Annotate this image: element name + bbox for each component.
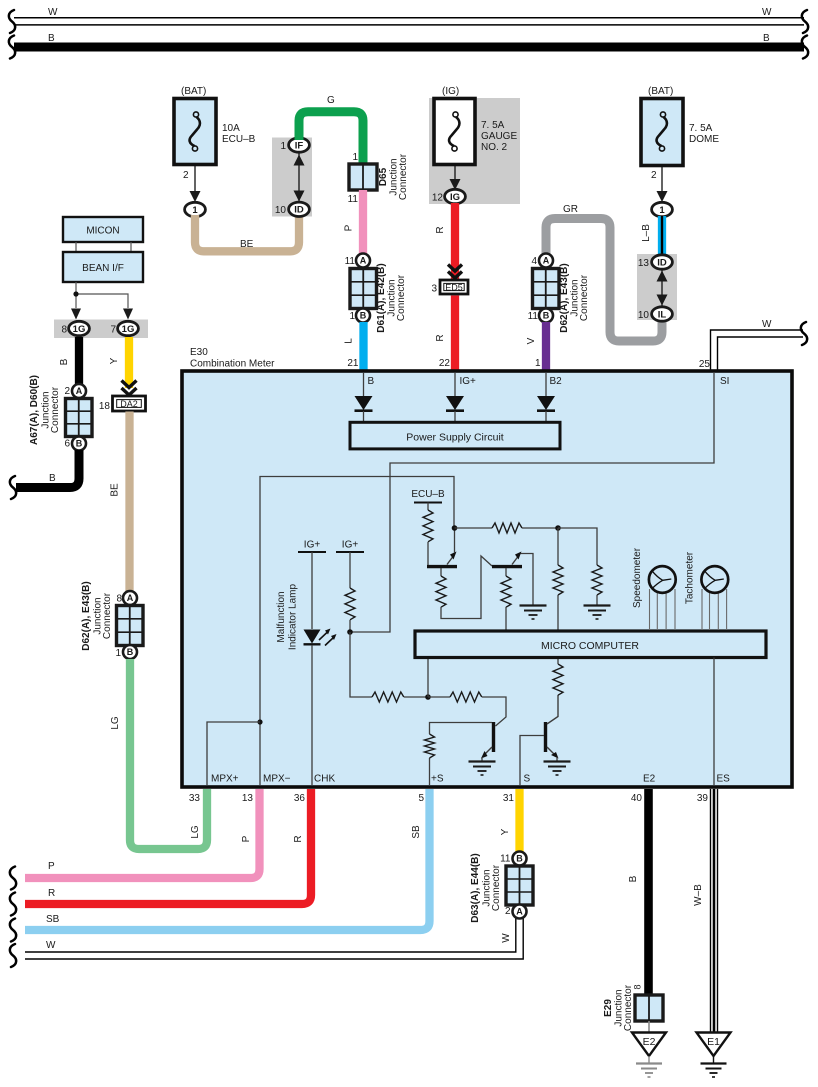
junction connector D62(A), E43(B) right xyxy=(533,269,560,309)
wire R6 to ground xyxy=(596,595,598,605)
arrow up below ID xyxy=(657,271,668,282)
svg-text:2: 2 xyxy=(64,386,70,397)
svg-text:E30: E30 xyxy=(190,347,208,358)
svg-text:7: 7 xyxy=(110,325,116,336)
svg-text:2: 2 xyxy=(651,170,657,181)
svg-text:MPX+: MPX+ xyxy=(211,774,239,785)
wire BE (ECU-B to ID) xyxy=(195,215,299,251)
transistor Q4 base bar xyxy=(544,722,547,752)
wire node D to micro computer xyxy=(427,658,429,698)
junction connector D62(A), E43(B) left xyxy=(117,606,144,646)
transistor Q4 collector xyxy=(547,695,558,724)
svg-text:(IG): (IG) xyxy=(442,86,459,97)
svg-text:IG+: IG+ xyxy=(342,540,359,551)
terminal circle B of D62 xyxy=(539,309,553,323)
box MICON xyxy=(63,217,143,242)
svg-text:5: 5 xyxy=(418,793,424,804)
wire R7 to node C xyxy=(349,620,351,632)
svg-text:D62(A), E43(B): D62(A), E43(B) xyxy=(81,581,92,650)
break right of B bus xyxy=(802,36,808,59)
wire ECU-B rail to resistor xyxy=(427,503,429,511)
wire GR (IL to D62) xyxy=(546,219,662,342)
resistor R2 (Q1 collector) xyxy=(436,576,446,607)
junction connector E29 xyxy=(635,995,663,1021)
svg-text:W–B: W–B xyxy=(693,884,704,906)
wire G (IF to D65) xyxy=(299,112,363,166)
svg-text:B: B xyxy=(368,376,375,387)
svg-text:BEAN I/F: BEAN I/F xyxy=(82,263,124,274)
svg-text:22: 22 xyxy=(439,358,451,369)
tachometer gauge xyxy=(701,566,728,630)
svg-text:L: L xyxy=(344,338,355,344)
power supply circuit box xyxy=(350,422,560,449)
wire R2 to Q2 base xyxy=(441,556,492,619)
panel gray ID-IL xyxy=(637,254,677,320)
panel gray IG fuse xyxy=(429,98,520,204)
svg-text:B: B xyxy=(49,473,56,484)
terminal circle IL xyxy=(652,307,673,321)
ground G1 (Q2 emitter) xyxy=(520,606,547,620)
svg-text:18: 18 xyxy=(99,401,111,412)
svg-text:31: 31 xyxy=(503,793,515,804)
wire LG (D62 to pin 33) xyxy=(130,659,207,849)
svg-text:10: 10 xyxy=(638,310,650,321)
svg-text:B: B xyxy=(48,33,55,44)
junction connector D61(A), E42(B) xyxy=(350,269,377,309)
svg-text:10: 10 xyxy=(275,205,287,216)
terminal circle A of D61 xyxy=(356,254,370,268)
svg-text:6: 6 xyxy=(64,439,70,450)
transistor Q4 emitter xyxy=(547,747,559,762)
ground G3 (Q3 emitter) xyxy=(469,762,496,776)
wire IG+ to LED xyxy=(311,552,313,629)
svg-text:Tachometer: Tachometer xyxy=(685,551,696,604)
wire S internal xyxy=(520,736,544,786)
wire ES internal xyxy=(713,658,715,786)
svg-text:S: S xyxy=(524,774,531,785)
wire Q1 collector xyxy=(440,568,442,576)
terminal circle 1 (ECU-B) xyxy=(185,202,206,216)
node MPX junction xyxy=(257,719,262,724)
arrow into 1G pin 7 xyxy=(123,309,133,320)
svg-text:LG: LG xyxy=(190,825,201,839)
terminal circle IG xyxy=(445,189,466,203)
combination meter E30 box xyxy=(182,371,792,787)
wires MICON to BEAN xyxy=(76,242,131,252)
svg-text:4: 4 xyxy=(531,256,537,267)
wire fuse to IG terminal xyxy=(454,164,456,190)
svg-text:33: 33 xyxy=(189,793,201,804)
wire MPX- internal trace xyxy=(260,477,454,786)
wire R (IG to ED5) xyxy=(451,203,459,281)
svg-text:GAUGE: GAUGE xyxy=(481,131,517,142)
svg-text:BE: BE xyxy=(110,483,121,497)
svg-text:CHK: CHK xyxy=(314,774,335,785)
wire BEAN to 1G terminals xyxy=(76,282,128,308)
break left of SB bus xyxy=(10,919,16,942)
svg-text:W: W xyxy=(46,940,56,951)
svg-text:B: B xyxy=(516,854,523,864)
wire Y (1G to DA2) xyxy=(125,337,133,388)
terminal circle B of D61 xyxy=(356,309,370,323)
svg-text:D63(A), E44(B): D63(A), E44(B) xyxy=(470,853,481,922)
terminal circle ID (right) xyxy=(652,255,673,269)
svg-text:1: 1 xyxy=(352,152,358,163)
svg-text:7. 5A: 7. 5A xyxy=(481,120,505,131)
svg-text:R: R xyxy=(293,835,304,842)
svg-text:2: 2 xyxy=(183,170,189,181)
chevrons on wire Y xyxy=(122,381,137,396)
svg-text:ECU–B: ECU–B xyxy=(222,134,256,145)
svg-text:(BAT): (BAT) xyxy=(648,86,673,97)
wire MPX+ internal trace xyxy=(207,722,260,785)
break left of W bus (bottom) xyxy=(10,944,16,967)
wire BE (DA2 to D62 left) xyxy=(125,412,133,593)
svg-text:A: A xyxy=(543,256,550,266)
svg-text:MICRO COMPUTER: MICRO COMPUTER xyxy=(541,640,639,652)
speedometer gauge xyxy=(649,566,676,630)
wire L-B (terminal to ID) xyxy=(658,216,666,256)
wire V (D62 to pin 1) xyxy=(542,322,550,371)
wire micro computer to R11 xyxy=(557,658,559,665)
terminal circle ID xyxy=(289,202,310,216)
connector ED5 xyxy=(440,280,468,294)
svg-text:P: P xyxy=(241,835,252,842)
node A xyxy=(452,525,458,531)
junction connector A67(A), D60(B) xyxy=(66,399,93,437)
node D xyxy=(425,694,431,700)
svg-text:11: 11 xyxy=(500,854,511,865)
rail bar ECU-B xyxy=(414,502,442,504)
wire node A to R4 xyxy=(455,527,493,529)
ground G4 (Q4 emitter) xyxy=(544,762,571,776)
svg-text:Connector: Connector xyxy=(623,984,634,1031)
svg-text:SB: SB xyxy=(46,914,60,925)
svg-text:1: 1 xyxy=(115,648,121,659)
svg-text:W: W xyxy=(501,933,512,943)
terminal circle B of D63 xyxy=(513,852,527,866)
break right of W bus xyxy=(802,10,808,33)
svg-text:A67(A), D60(B): A67(A), D60(B) xyxy=(29,375,40,445)
svg-text:11: 11 xyxy=(345,256,356,267)
micro computer box xyxy=(415,631,766,658)
wire IG+ rail 2 down xyxy=(349,552,351,588)
svg-text:ID: ID xyxy=(294,205,304,216)
break left of B bus xyxy=(9,36,15,59)
svg-text:E2: E2 xyxy=(643,774,656,785)
fuse 10A ECU-B xyxy=(174,99,216,165)
svg-text:MPX−: MPX− xyxy=(263,774,291,785)
svg-text:ED5: ED5 xyxy=(445,283,463,293)
resistor R11 (Q4 collector) xyxy=(553,664,563,695)
arrow down above IL xyxy=(657,295,668,306)
wire W-B (pin 39 to E1) xyxy=(711,789,718,1032)
connector DA2 xyxy=(113,396,146,411)
resistor R6 xyxy=(592,565,602,595)
wire +S internal xyxy=(429,758,431,785)
svg-text:21: 21 xyxy=(347,358,359,369)
terminal circle 1G (pin 7) xyxy=(118,321,139,335)
wire node B to R6 xyxy=(558,528,597,565)
wire R4 to node B xyxy=(522,527,558,529)
transistor Q2 emitter xyxy=(512,552,533,606)
wire W bus (top) xyxy=(14,18,804,25)
terminal circle A of D62 left xyxy=(123,591,137,605)
svg-text:Connector: Connector xyxy=(398,153,409,200)
diode pin 22 xyxy=(446,373,464,422)
svg-text:B: B xyxy=(59,358,70,365)
svg-text:BE: BE xyxy=(240,239,254,250)
svg-text:B: B xyxy=(360,311,367,321)
resistor R9 (horizontal) xyxy=(450,692,482,702)
transistor Q1 base bar xyxy=(427,565,457,568)
fuse 7.5A DOME xyxy=(641,99,683,166)
arrow into IG terminal xyxy=(450,179,461,190)
transistor Q2 base bar xyxy=(492,565,522,568)
svg-text:R: R xyxy=(435,226,446,233)
wire E29 to E2 ground xyxy=(648,1021,650,1032)
svg-text:DA2: DA2 xyxy=(120,399,138,409)
diode pin 1 xyxy=(537,373,555,422)
wire P bus xyxy=(25,789,260,878)
svg-text:SB: SB xyxy=(411,825,422,839)
fuse 7.5A GAUGE NO.2 xyxy=(434,99,475,165)
wire Y (pin 31 to D63) xyxy=(515,789,523,853)
node B xyxy=(555,525,561,531)
resistor R3 (Q2 collector) xyxy=(501,576,511,607)
transistor Q3 base bar xyxy=(492,722,495,752)
svg-text:3: 3 xyxy=(431,284,437,295)
svg-text:36: 36 xyxy=(294,793,306,804)
svg-text:8: 8 xyxy=(633,984,643,989)
wire SI internal trace xyxy=(352,372,714,632)
wire R10 to Q3 base xyxy=(430,723,493,735)
svg-text:A: A xyxy=(360,256,367,266)
svg-text:L–B: L–B xyxy=(641,224,652,242)
panel gray IF-ID xyxy=(272,138,312,217)
svg-text:ES: ES xyxy=(717,774,731,785)
resistor R10 (+S) xyxy=(425,734,435,758)
arrow up to IF xyxy=(294,155,305,166)
svg-text:Malfunction: Malfunction xyxy=(276,591,287,642)
arrow into DOME terminal 1 xyxy=(657,191,668,202)
svg-text:IG: IG xyxy=(450,192,460,203)
transistor Q3 emitter xyxy=(481,747,492,762)
resistor R5 xyxy=(553,565,563,595)
wire R9 to Q3 collector xyxy=(482,697,506,726)
svg-text:Connector: Connector xyxy=(491,864,502,911)
svg-text:Indicator Lamp: Indicator Lamp xyxy=(288,583,299,650)
svg-text:SI: SI xyxy=(720,376,729,387)
svg-text:Y: Y xyxy=(500,828,511,835)
svg-text:E29: E29 xyxy=(603,999,614,1017)
wire B (A67 to left break) xyxy=(16,450,79,488)
diode pin 21 xyxy=(355,373,373,422)
svg-text:1: 1 xyxy=(349,311,355,322)
svg-text:P: P xyxy=(344,224,355,231)
svg-text:1G: 1G xyxy=(73,324,86,335)
svg-text:11: 11 xyxy=(528,311,539,322)
arrow into 1G pin 8 xyxy=(71,309,81,320)
wire R bus xyxy=(25,789,311,904)
svg-text:10A: 10A xyxy=(222,123,240,134)
break left of P bus xyxy=(10,867,16,890)
wire SB bus xyxy=(25,789,430,930)
svg-text:NO. 2: NO. 2 xyxy=(481,142,508,153)
svg-text:W: W xyxy=(762,319,772,330)
ground point E2 xyxy=(632,1033,666,1078)
terminal circle A of D62 xyxy=(539,254,553,268)
terminal circle B of D62 left xyxy=(123,645,137,659)
svg-text:Y: Y xyxy=(109,357,120,364)
svg-text:B: B xyxy=(76,439,83,449)
svg-text:13: 13 xyxy=(242,793,254,804)
svg-text:(BAT): (BAT) xyxy=(181,86,206,97)
junction connector D63(A), E44(B) xyxy=(506,866,533,905)
wire R5 to micro computer xyxy=(557,595,559,631)
resistor R1 (ECU-B) xyxy=(423,510,433,542)
svg-text:D65: D65 xyxy=(378,167,389,186)
chevrons on wire R xyxy=(448,265,462,279)
svg-text:39: 39 xyxy=(697,793,709,804)
terminal circle A of A67 xyxy=(72,384,86,398)
break left of W bus xyxy=(9,10,15,33)
junction connector D65 xyxy=(349,164,377,190)
svg-text:13: 13 xyxy=(638,258,650,269)
svg-text:G: G xyxy=(327,95,335,106)
svg-text:8: 8 xyxy=(116,594,122,605)
svg-text:R: R xyxy=(435,334,446,341)
wire B (pin 40 to E29) xyxy=(644,789,653,995)
svg-text:8: 8 xyxy=(61,325,67,336)
svg-text:V: V xyxy=(526,337,537,344)
terminal circle A of D63 xyxy=(513,905,527,919)
wire fuse to terminal 1 xyxy=(194,164,196,196)
svg-text:25: 25 xyxy=(699,359,711,370)
terminal circle 1 (DOME) xyxy=(652,202,673,216)
rail bar IG+ 2 xyxy=(336,551,364,553)
svg-text:1: 1 xyxy=(280,141,286,152)
svg-text:B: B xyxy=(628,875,639,882)
svg-text:2: 2 xyxy=(505,906,511,917)
wire R1 to Q1 xyxy=(427,542,429,565)
svg-text:B: B xyxy=(543,311,550,321)
svg-text:A: A xyxy=(516,907,523,917)
wire R (ED5 to pin 22) xyxy=(451,296,459,372)
rail bar IG+ 1 xyxy=(298,551,326,553)
svg-text:W: W xyxy=(48,7,58,18)
svg-text:1: 1 xyxy=(535,358,541,369)
svg-text:Connector: Connector xyxy=(50,386,61,433)
svg-text:IF: IF xyxy=(295,140,304,151)
box BEAN I/F xyxy=(63,252,143,282)
wire W bus (bottom) xyxy=(25,916,523,959)
svg-text:+S: +S xyxy=(431,774,444,785)
svg-text:IL: IL xyxy=(658,309,667,320)
wire IF-ID link xyxy=(298,150,300,205)
resistor R7 (IG+ rail 2) xyxy=(345,588,355,620)
svg-text:Connector: Connector xyxy=(102,592,113,639)
svg-text:IG+: IG+ xyxy=(304,540,321,551)
transistor Q1 emitter xyxy=(447,528,457,565)
svg-text:D62(A), E43(B): D62(A), E43(B) xyxy=(559,263,570,332)
svg-text:Connector: Connector xyxy=(396,274,407,321)
wire R8 to node D xyxy=(404,696,428,698)
svg-text:7. 5A: 7. 5A xyxy=(689,123,713,134)
wire CHK internal xyxy=(311,645,313,785)
wire W (pin 25 to right) xyxy=(711,330,804,371)
arrow into terminal 1 xyxy=(190,191,201,202)
terminal circle B of A67 xyxy=(72,437,86,451)
svg-text:D61(A), E42(B): D61(A), E42(B) xyxy=(376,263,387,332)
svg-text:DOME: DOME xyxy=(689,134,719,145)
svg-text:LG: LG xyxy=(110,716,121,730)
svg-text:MICON: MICON xyxy=(86,226,119,237)
wire DOME fuse to terminal 1 xyxy=(661,166,663,197)
svg-text:40: 40 xyxy=(631,793,643,804)
wire node C down xyxy=(350,632,372,697)
wire B bus (top) xyxy=(14,43,804,52)
svg-text:B: B xyxy=(763,33,770,44)
wire node B down xyxy=(557,528,559,565)
svg-text:Combination Meter: Combination Meter xyxy=(190,359,275,370)
wire R3 to micro computer xyxy=(505,607,507,631)
svg-text:ID: ID xyxy=(657,257,667,268)
terminal circle IF xyxy=(289,138,310,152)
ground point E1 xyxy=(697,1033,731,1078)
wire B (1G to A67) xyxy=(75,337,83,384)
break left of R bus xyxy=(10,893,16,916)
arrow down to ID xyxy=(294,191,305,202)
svg-text:A: A xyxy=(127,593,134,603)
svg-text:IG+: IG+ xyxy=(460,376,477,387)
wire node D to R9 xyxy=(428,696,450,698)
wire P (D65 to D61) xyxy=(359,190,367,254)
svg-text:GR: GR xyxy=(563,204,578,215)
panel gray 1G strip xyxy=(54,320,148,339)
break left of B wire xyxy=(10,476,16,499)
wire Q2 collector xyxy=(505,568,507,576)
resistor R8 (horizontal) xyxy=(372,692,404,702)
svg-text:W: W xyxy=(762,7,772,18)
node C xyxy=(347,629,353,635)
svg-text:11: 11 xyxy=(348,194,359,205)
LED malfunction indicator lamp xyxy=(304,629,337,646)
svg-text:Power Supply Circuit: Power Supply Circuit xyxy=(406,432,504,444)
wire L (D61 to pin 21) xyxy=(359,322,367,371)
svg-text:B: B xyxy=(127,647,134,657)
terminal circle 1G (pin 8) xyxy=(69,321,90,335)
svg-text:12: 12 xyxy=(432,193,444,204)
svg-text:A: A xyxy=(76,386,83,396)
svg-text:P: P xyxy=(48,861,55,872)
svg-text:Speedometer: Speedometer xyxy=(632,547,643,608)
resistor R4 (horizontal) xyxy=(492,523,522,533)
svg-text:B2: B2 xyxy=(550,376,563,387)
svg-text:Connector: Connector xyxy=(579,274,590,321)
ground G2 (R6) xyxy=(584,606,611,620)
svg-text:1: 1 xyxy=(192,205,198,216)
svg-text:ECU–B: ECU–B xyxy=(411,489,445,500)
svg-text:1: 1 xyxy=(659,205,665,216)
wire ID-IL link xyxy=(661,266,663,310)
break right of SI W wire xyxy=(801,322,807,345)
node junction below BEAN xyxy=(73,291,78,296)
svg-text:E1: E1 xyxy=(707,1036,720,1048)
svg-text:R: R xyxy=(48,888,55,899)
svg-text:E2: E2 xyxy=(643,1036,656,1048)
svg-text:1G: 1G xyxy=(122,324,135,335)
